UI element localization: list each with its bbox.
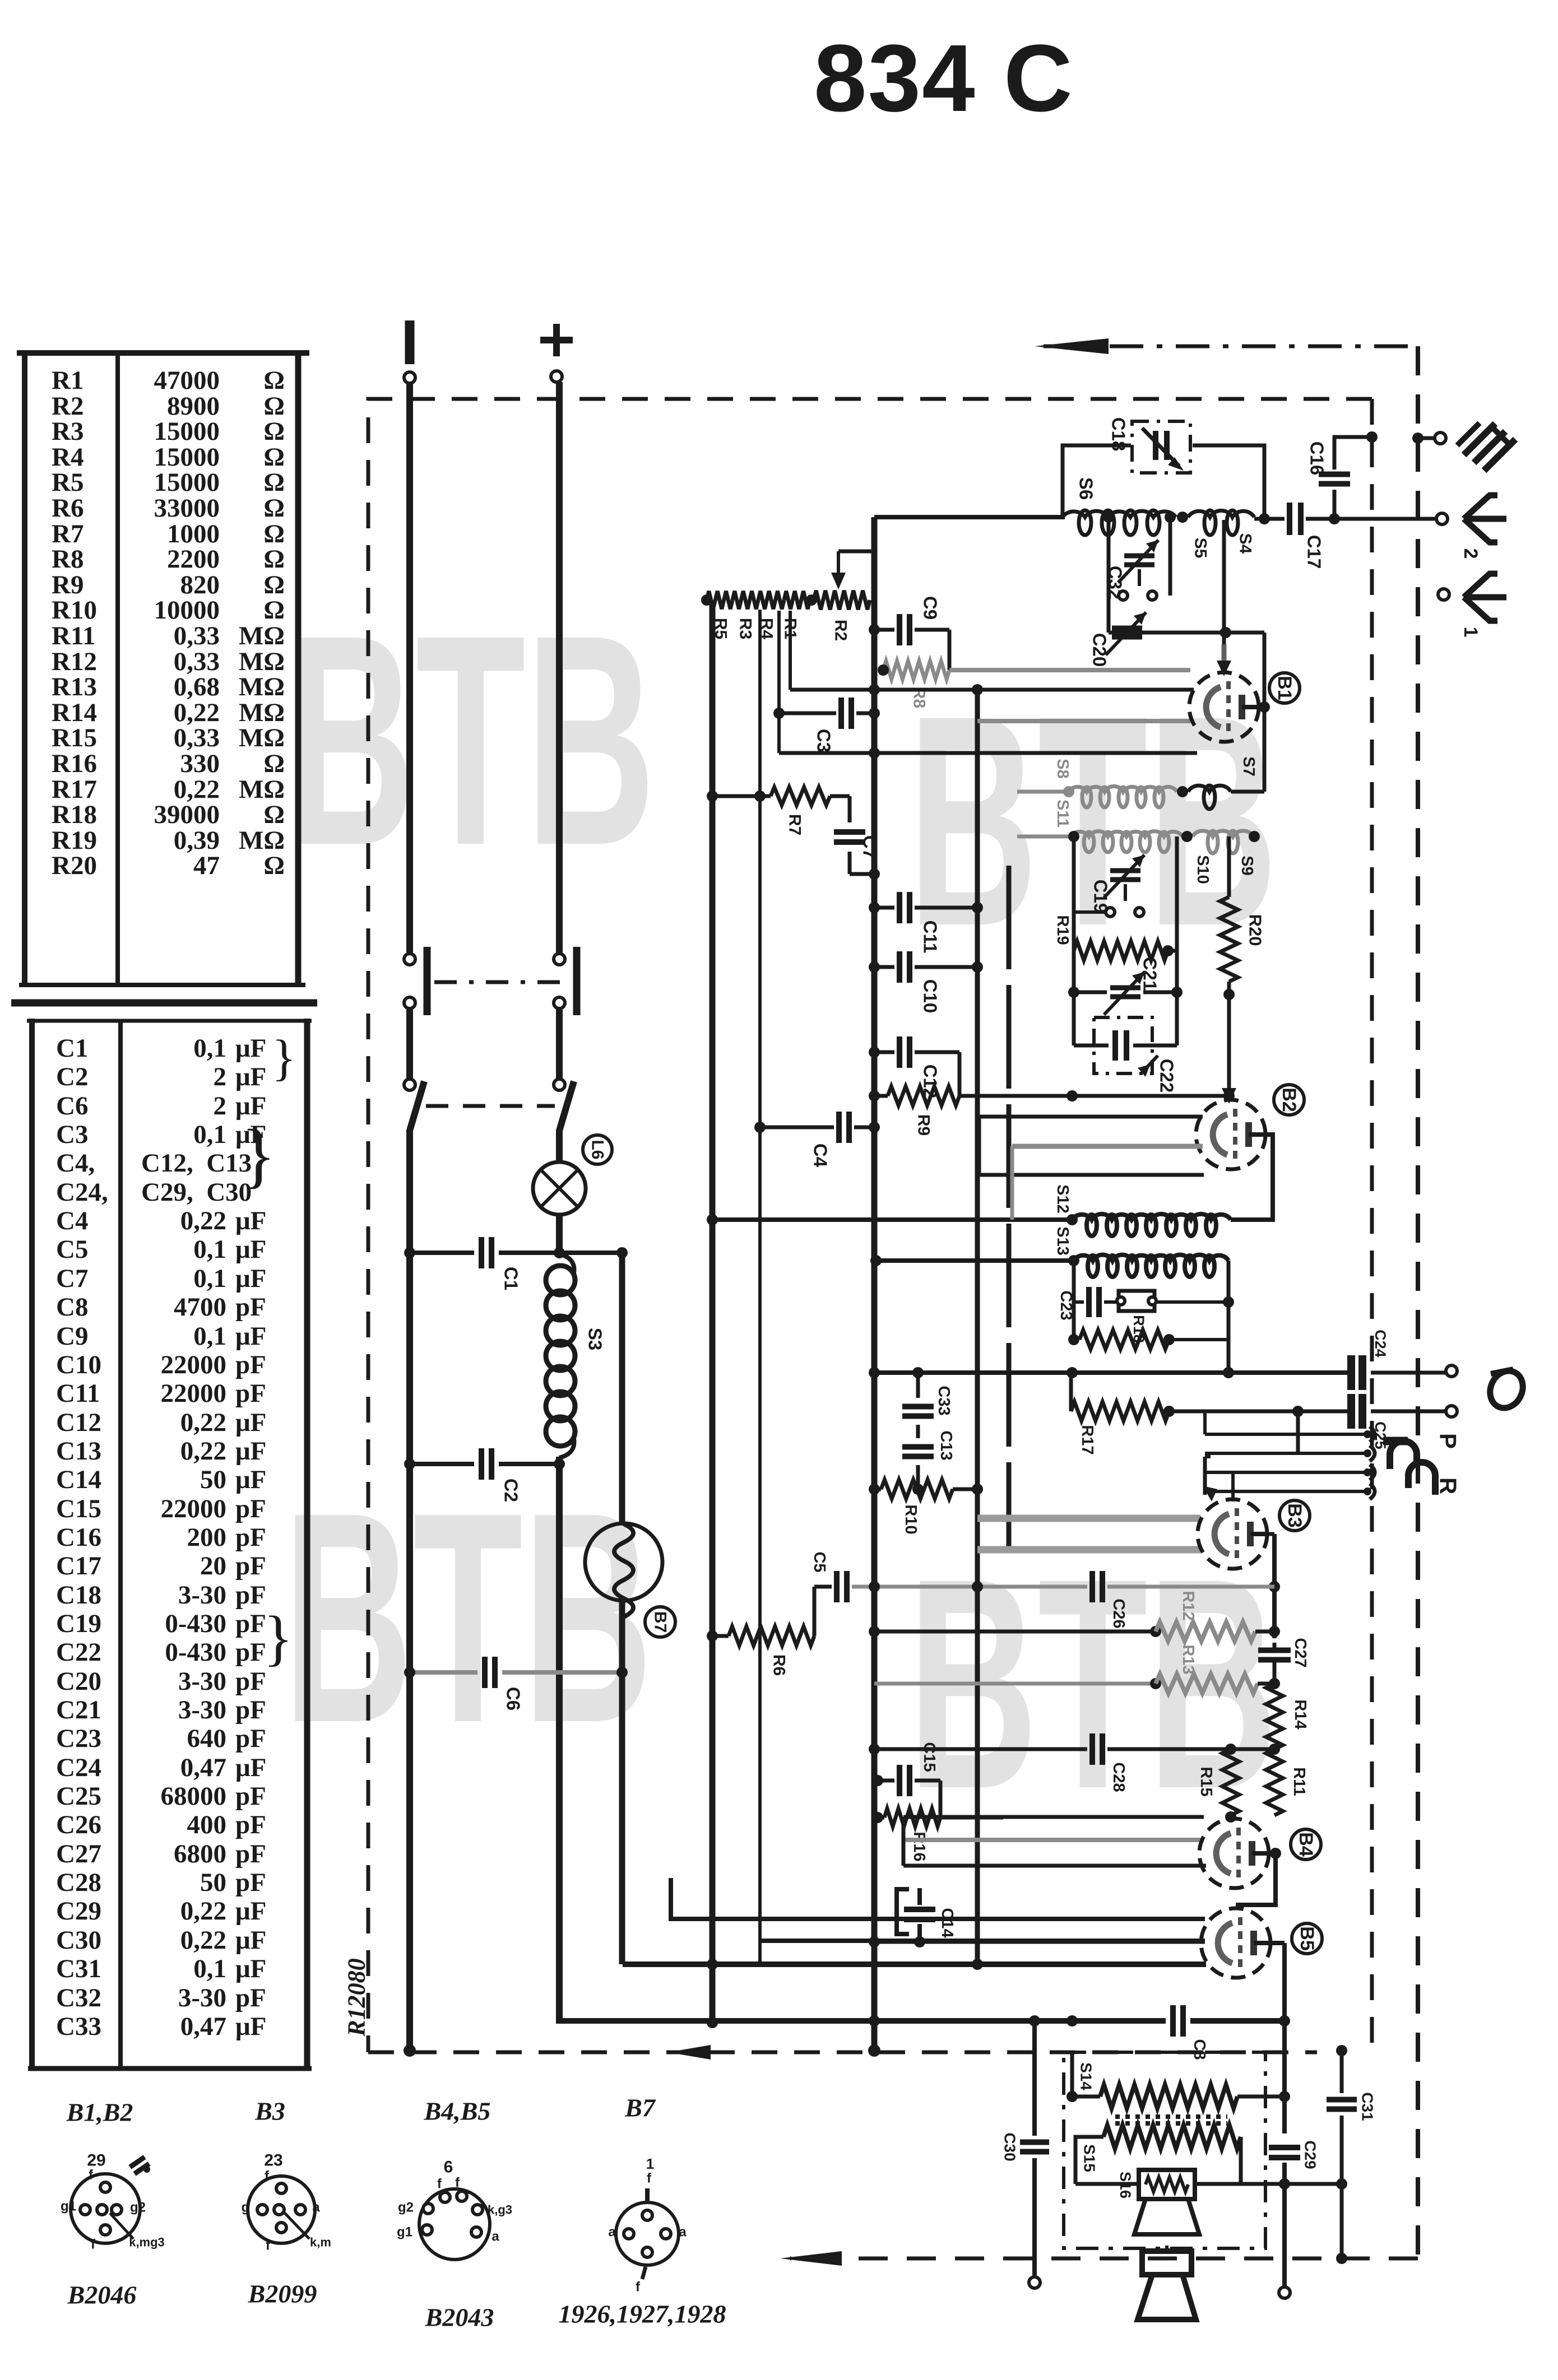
svg-text:Ω: Ω	[263, 494, 285, 523]
svg-text:Ω: Ω	[263, 366, 285, 395]
socket B1/B2 diagram	[61, 2151, 165, 2252]
svg-text:pF: pF	[235, 1379, 266, 1408]
primary S15	[1075, 2125, 1241, 2184]
svg-text:f: f	[636, 2280, 641, 2295]
resistor R9	[869, 1052, 959, 1136]
svg-text:R19: R19	[1054, 915, 1072, 945]
svg-text:R1: R1	[52, 366, 84, 395]
svg-text:}: }	[241, 1115, 276, 1196]
label P	[1435, 1433, 1462, 1449]
svg-text:B2099: B2099	[248, 2280, 317, 2308]
svg-text:C18: C18	[1109, 417, 1129, 452]
wire to pickup P	[869, 1367, 1347, 1378]
wires to B2 grids	[979, 1117, 1204, 1220]
svg-text:C23: C23	[1057, 1290, 1075, 1320]
label B5	[1292, 1923, 1322, 1954]
socket group label B1,B2	[66, 2098, 133, 2127]
svg-text:2: 2	[1460, 548, 1481, 559]
svg-text:33000: 33000	[154, 494, 220, 523]
svg-text:50: 50	[200, 1465, 226, 1494]
svg-text:S3: S3	[585, 1328, 606, 1350]
label S10	[1194, 855, 1212, 884]
svg-text:R7: R7	[786, 814, 804, 835]
wire B4 anode	[1236, 1848, 1281, 1905]
svg-text:Ω: Ω	[263, 596, 285, 625]
svg-text:C19: C19	[56, 1609, 101, 1638]
resistor R3	[732, 591, 758, 639]
antenna Y2 symbol	[1460, 495, 1506, 559]
svg-text:S4: S4	[1236, 533, 1255, 554]
svg-text:pF: pF	[235, 1293, 266, 1322]
svg-text:C33: C33	[935, 1386, 953, 1415]
svg-text:330: 330	[180, 749, 220, 778]
svg-text:S6: S6	[1076, 477, 1097, 500]
svg-text:μF: μF	[235, 1235, 266, 1264]
svg-text:R12: R12	[1179, 1591, 1197, 1620]
switch gang link (upper)	[434, 980, 571, 984]
svg-text:C3: C3	[814, 729, 834, 752]
svg-text:R2: R2	[832, 620, 850, 641]
svg-text:1: 1	[1460, 627, 1481, 638]
svg-text:200: 200	[187, 1523, 227, 1552]
cathode wire to B1	[779, 747, 1197, 759]
svg-text:1: 1	[646, 2155, 654, 2172]
svg-text:C13: C13	[56, 1437, 101, 1466]
svg-text:15000: 15000	[154, 417, 220, 446]
socket base label B2043	[425, 2303, 494, 2332]
svg-text:23: 23	[264, 2151, 282, 2170]
wire to pickup R	[1232, 1406, 1347, 1453]
svg-text:0-430: 0-430	[165, 1609, 226, 1638]
resistor R4	[758, 591, 785, 639]
svg-text:B4,B5: B4,B5	[424, 2097, 491, 2126]
svg-text:pF: pF	[235, 1638, 266, 1667]
switch gang link (lower)	[426, 1104, 555, 1108]
svg-text:C27: C27	[56, 1839, 101, 1868]
resistor R14	[1266, 1684, 1309, 1749]
battery plus terminal	[540, 324, 573, 382]
wire S8 left stub	[1017, 790, 1069, 794]
svg-text:pF: pF	[235, 1724, 266, 1753]
svg-text:S15: S15	[1081, 2144, 1098, 2172]
svg-text:50: 50	[200, 1868, 226, 1897]
capacitor C2	[481, 1448, 522, 1502]
socket base label 1926,1927,1928	[559, 2300, 726, 2328]
svg-text:R12080: R12080	[343, 1958, 370, 2037]
svg-text:C17: C17	[56, 1551, 101, 1581]
svg-text:C8: C8	[56, 1293, 88, 1322]
svg-text:R20: R20	[52, 851, 97, 880]
svg-text:R11: R11	[1290, 1767, 1308, 1796]
svg-text:C17: C17	[1304, 535, 1325, 569]
field coil S14	[1067, 2052, 1285, 2108]
svg-text:R16: R16	[52, 749, 97, 778]
svg-text:0,22: 0,22	[180, 1206, 226, 1235]
svg-text:pF: pF	[235, 1839, 266, 1868]
svg-text:C7: C7	[860, 835, 880, 859]
capacitor C28	[1092, 1733, 1128, 1792]
capacitor C8	[1173, 2005, 1208, 2060]
svg-text:22000: 22000	[161, 1379, 227, 1408]
svg-text:k,m: k,m	[310, 2235, 331, 2249]
svg-text:a: a	[312, 2200, 320, 2215]
svg-text:C2: C2	[56, 1062, 88, 1091]
svg-text:C4: C4	[56, 1206, 88, 1235]
svg-text:R15: R15	[1197, 1767, 1215, 1796]
svg-text:B7: B7	[651, 1611, 670, 1633]
svg-text:0,68: 0,68	[174, 672, 220, 701]
svg-text:C10: C10	[56, 1350, 101, 1379]
svg-text:400: 400	[187, 1810, 227, 1839]
svg-text:R20: R20	[1246, 914, 1265, 946]
svg-text:f: f	[647, 2171, 652, 2186]
svg-text:68000: 68000	[161, 1782, 227, 1811]
svg-text:C16: C16	[56, 1523, 101, 1552]
svg-text:μF: μF	[235, 2012, 266, 2041]
svg-text:1926,1927,1928: 1926,1927,1928	[559, 2300, 726, 2328]
mains switch pole contacts (left)	[404, 947, 427, 1090]
capacitor C14	[897, 1888, 956, 1947]
svg-text:pF: pF	[235, 1581, 266, 1610]
svg-text:C2: C2	[501, 1479, 522, 1502]
antenna Y1 symbol	[1460, 574, 1506, 637]
gray grid wire to B1	[949, 668, 1190, 672]
svg-text:C14: C14	[56, 1465, 101, 1494]
svg-text:C28: C28	[1110, 1762, 1128, 1792]
voice coil S16 box	[1075, 2170, 1347, 2199]
svg-text:MΩ: MΩ	[239, 621, 285, 650]
capacitor C26	[1092, 1571, 1128, 1629]
svg-text:C27: C27	[1291, 1638, 1309, 1667]
antenna tank top wire	[1063, 445, 1270, 524]
wire antenna line to Y2	[1254, 513, 1448, 524]
svg-text:C1: C1	[56, 1034, 88, 1063]
svg-text:μF: μF	[235, 1437, 266, 1466]
chain drop wires	[773, 611, 790, 753]
resistor R16	[872, 1809, 1003, 1862]
svg-text:g2: g2	[398, 2200, 414, 2215]
capacitor C15	[872, 1742, 940, 1817]
resistor value table R1-R20	[17, 351, 309, 985]
svg-text:C20: C20	[56, 1667, 101, 1696]
svg-text:pF: pF	[235, 1667, 266, 1696]
coil S8 (gray)	[1063, 786, 1177, 807]
coil S12	[1067, 1214, 1231, 1236]
svg-text:47000: 47000	[154, 366, 220, 395]
svg-text:C24: C24	[56, 1753, 101, 1782]
svg-text:C10: C10	[920, 979, 941, 1014]
socket B4/B5 diagram	[397, 2158, 512, 2260]
wire B3 anode down	[1267, 1534, 1280, 1638]
svg-text:0,1: 0,1	[193, 1954, 226, 1983]
switch contacts under C32	[1119, 569, 1157, 600]
svg-text:μF: μF	[235, 1753, 266, 1782]
coil S6	[1063, 510, 1176, 535]
svg-text:k,g3: k,g3	[488, 2203, 512, 2217]
wire C5/C26 row	[814, 1581, 1274, 1592]
svg-text:640: 640	[187, 1724, 227, 1753]
svg-text:10000: 10000	[154, 596, 220, 625]
inner dashed enclosure border	[368, 399, 1372, 2052]
svg-text:C3: C3	[56, 1120, 88, 1149]
capacitor C31	[1327, 2045, 1376, 2264]
capacitor C3	[779, 698, 880, 752]
main HT bus	[868, 517, 880, 2057]
svg-text:μF: μF	[235, 1896, 266, 1926]
capacitor C33	[902, 1373, 953, 1416]
svg-text:0,1: 0,1	[193, 1322, 226, 1351]
svg-text:C4: C4	[810, 1143, 831, 1168]
grid wires to B4	[903, 1811, 1236, 1866]
tube B5	[1201, 1908, 1270, 1978]
S13 tank frame	[1074, 1261, 1234, 1378]
svg-text:μF: μF	[235, 1926, 266, 1955]
svg-text:C32: C32	[56, 1983, 101, 2012]
resistor R20	[1220, 836, 1265, 1096]
switch contacts under C19	[1074, 884, 1144, 917]
svg-text:R16: R16	[910, 1832, 928, 1861]
tube B4	[1199, 1819, 1269, 1888]
coil S3	[546, 1254, 575, 1458]
resistor R7	[707, 787, 830, 835]
svg-text:R13: R13	[52, 672, 97, 701]
svg-text:0,22: 0,22	[180, 1437, 226, 1466]
svg-text:}: }	[272, 1030, 296, 1086]
svg-text:3-30: 3-30	[178, 1581, 226, 1610]
svg-text:C5: C5	[810, 1551, 828, 1572]
capacitor C16	[1307, 431, 1378, 524]
svg-text:C1: C1	[501, 1267, 522, 1290]
svg-text:f: f	[437, 2177, 442, 2192]
capacitor C1	[481, 1237, 522, 1290]
svg-text:R3: R3	[52, 417, 84, 446]
svg-text:μF: μF	[235, 1408, 266, 1437]
gang dashed link	[1007, 866, 1012, 1547]
svg-text:R5: R5	[712, 618, 730, 639]
svg-text:4700: 4700	[174, 1293, 226, 1322]
tube B2	[1196, 1100, 1265, 1169]
svg-text:μF: μF	[235, 1062, 266, 1091]
label S5	[1191, 538, 1210, 559]
earth symbol	[1457, 423, 1515, 471]
svg-text:3-30: 3-30	[178, 1667, 226, 1696]
svg-text:pF: pF	[235, 1983, 266, 2012]
gray wire 2 to B1	[977, 719, 1190, 723]
label S8	[1054, 759, 1072, 778]
svg-text:R: R	[1435, 1477, 1462, 1494]
rectifier tube B7	[585, 1523, 662, 1617]
svg-text:39000: 39000	[154, 800, 220, 829]
svg-text:R6: R6	[770, 1654, 789, 1676]
svg-text:0,47: 0,47	[180, 1753, 226, 1782]
svg-text:g2: g2	[130, 2200, 146, 2215]
svg-text:C13: C13	[937, 1430, 955, 1460]
svg-text:0,1: 0,1	[193, 1264, 226, 1293]
svg-text:2: 2	[214, 1062, 227, 1091]
svg-text:a: a	[491, 2229, 499, 2244]
coil S7	[1177, 785, 1264, 809]
black wire to B1	[790, 684, 1194, 695]
svg-text:C24,: C24,	[56, 1178, 108, 1207]
svg-text:C12: C12	[56, 1408, 101, 1437]
svg-text:pF: pF	[235, 1782, 266, 1811]
svg-text:C30: C30	[1001, 2132, 1019, 2161]
svg-text:20: 20	[200, 1551, 226, 1581]
capacitor C27	[1258, 1638, 1309, 1684]
wire B1 anode	[1259, 705, 1264, 709]
svg-text:f: f	[91, 2237, 96, 2252]
svg-text:0,1: 0,1	[193, 1034, 226, 1063]
wire B2 anode to S12	[1231, 1135, 1273, 1220]
grid cap arrow B3	[1203, 1457, 1217, 1502]
minus supply bus wire	[404, 383, 424, 2057]
label B3	[1279, 1500, 1310, 1531]
coil S10/S9 (gray)	[1181, 831, 1260, 853]
trimmer C18 in dash-dot box	[1109, 417, 1191, 473]
svg-text:C11: C11	[56, 1379, 100, 1408]
tube B1	[1189, 672, 1259, 742]
svg-text:f: f	[266, 2238, 271, 2253]
capacitor C7	[830, 796, 880, 880]
svg-text:Ω: Ω	[263, 468, 285, 497]
transformer core	[1115, 2117, 1227, 2123]
svg-text:R6: R6	[52, 494, 84, 523]
socket group label B3	[254, 2097, 285, 2126]
svg-text:R11: R11	[52, 621, 95, 650]
capacitor C30	[1001, 2015, 1050, 2288]
capacitor C24	[1351, 1330, 1457, 1390]
arrow on bottom dashed border	[668, 2045, 711, 2060]
outer dash-dot border with arrow	[780, 338, 1418, 2266]
svg-text:C9: C9	[920, 596, 941, 620]
svg-text:R3: R3	[736, 618, 755, 639]
svg-text:R4: R4	[758, 618, 776, 640]
svg-text:pF: pF	[235, 1695, 266, 1724]
tube B3	[1198, 1499, 1267, 1569]
label S7	[1240, 756, 1258, 776]
svg-text:B4: B4	[1295, 1832, 1316, 1857]
antenna terminal Y1	[1438, 589, 1449, 600]
svg-text:μF: μF	[235, 1465, 266, 1494]
capacitor C11	[869, 892, 983, 953]
wiper arrow into R2	[831, 551, 874, 589]
resistor R17	[1071, 1373, 1232, 1455]
label S9	[1238, 856, 1256, 875]
capacitor C23	[1057, 1287, 1118, 1321]
grid wires to B5	[671, 1878, 1205, 1941]
capacitor C4	[760, 1112, 880, 1168]
wire long grid line B5	[623, 1959, 1206, 1970]
svg-text:B2: B2	[1278, 1087, 1300, 1112]
svg-text:C14: C14	[938, 1908, 956, 1937]
socket group label B4,B5	[424, 2097, 491, 2126]
bus from R5 end down	[707, 600, 718, 2028]
svg-text:0,47: 0,47	[180, 2012, 226, 2041]
socket group label B7	[624, 2094, 656, 2122]
svg-text:P: P	[1435, 1433, 1462, 1449]
svg-text:15000: 15000	[154, 468, 220, 497]
capacitor C6	[485, 1657, 524, 1710]
svg-text:6: 6	[444, 2158, 453, 2177]
socket B3 diagram	[242, 2151, 331, 2253]
svg-text:S7: S7	[1240, 756, 1258, 776]
svg-text:C6: C6	[503, 1687, 524, 1710]
capacitor C9	[869, 596, 949, 670]
mains switch pole contacts (right)	[554, 947, 577, 1090]
svg-text:S8: S8	[1054, 759, 1072, 778]
svg-text:}: }	[263, 1603, 293, 1672]
label S12	[1054, 1184, 1072, 1214]
socket base label B2099	[248, 2280, 317, 2308]
svg-text:pF: pF	[235, 1609, 266, 1638]
svg-text:0,22: 0,22	[180, 1896, 226, 1926]
grid cap wire B1	[1217, 520, 1231, 676]
svg-text:R10: R10	[902, 1504, 920, 1534]
svg-text:C12, C13: C12, C13	[141, 1149, 252, 1178]
svg-text:C23: C23	[56, 1724, 101, 1753]
capacitor C10	[869, 951, 983, 1013]
capacitor C17	[1290, 503, 1325, 569]
drawing number R12080	[343, 1958, 370, 2037]
svg-text:C9: C9	[56, 1322, 88, 1351]
link R18 box	[1117, 1291, 1234, 1343]
wire to R13	[874, 1678, 1161, 1689]
svg-text:B5: B5	[1296, 1926, 1318, 1950]
inner dashed vertical (right)	[1370, 399, 1374, 2051]
svg-text:3-30: 3-30	[178, 1695, 226, 1724]
capacitor C5	[810, 1551, 847, 1602]
svg-text:C8: C8	[1190, 2039, 1208, 2060]
svg-text:a: a	[608, 2225, 616, 2240]
capacitor value table C1-C33	[11, 1003, 317, 2068]
svg-text:0,1: 0,1	[193, 1235, 226, 1264]
resistor R8 (gray)	[878, 661, 949, 708]
coil S13	[870, 1255, 1228, 1277]
capacitor C29	[1269, 2140, 1319, 2184]
svg-text:C22: C22	[1157, 1059, 1177, 1093]
capacitor C13	[902, 1425, 955, 1489]
label B4	[1291, 1829, 1321, 1860]
svg-text:μF: μF	[235, 1034, 266, 1063]
svg-text:pF: pF	[235, 1810, 266, 1839]
svg-text:B2043: B2043	[425, 2303, 494, 2332]
svg-text:MΩ: MΩ	[239, 672, 285, 701]
svg-text:μF: μF	[235, 1264, 266, 1293]
svg-text:0,22: 0,22	[180, 1408, 226, 1437]
svg-text:Ω: Ω	[263, 749, 285, 778]
svg-text:pF: pF	[235, 1868, 266, 1897]
gramophone script O	[1484, 1365, 1528, 1413]
svg-text:C21: C21	[1140, 957, 1161, 991]
svg-text:C21: C21	[56, 1695, 101, 1724]
resistor R2	[701, 591, 870, 641]
label B2	[1274, 1085, 1304, 1115]
rectifier bus through B7	[619, 1253, 625, 1964]
svg-text:C26: C26	[1110, 1598, 1128, 1628]
svg-text:f: f	[455, 2176, 460, 2191]
wire S11 left stub	[1017, 835, 1070, 839]
trimmer C22 in dash-dot box	[1074, 992, 1177, 1093]
antenna feed wire	[874, 515, 1065, 519]
wire C8 row	[559, 2015, 1285, 2028]
svg-text:BTB: BTB	[286, 573, 656, 908]
svg-text:pF: pF	[235, 1523, 266, 1552]
svg-text:Ω: Ω	[263, 545, 285, 574]
coil S11 (gray)	[1070, 831, 1183, 852]
svg-text:C31: C31	[56, 1954, 101, 1983]
coil S5/S4	[1177, 510, 1254, 535]
wire to R12	[869, 1626, 1161, 1637]
